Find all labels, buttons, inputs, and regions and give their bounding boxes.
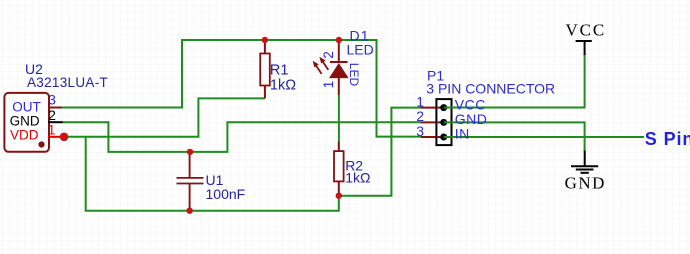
svg-text:3: 3 — [416, 123, 424, 139]
P1 pin 1 pad — [440, 104, 447, 111]
U2 corner marker dot — [38, 141, 44, 147]
junction at capacitor top — [187, 149, 193, 155]
LED emission arrow 1 — [316, 66, 321, 74]
svg-text:3 PIN CONNECTOR: 3 PIN CONNECTOR — [426, 80, 555, 96]
svg-text:1: 1 — [48, 122, 56, 138]
ground symbol stem — [584, 151, 586, 167]
U2 pin 3 stub — [48, 107, 62, 109]
svg-text:2: 2 — [48, 107, 56, 123]
resistor R2 — [338, 142, 340, 196]
LED emission arrow 2 — [323, 62, 328, 70]
svg-text:1kΩ: 1kΩ — [270, 78, 296, 94]
wire VDD branch down to bottom rail across to R2 bottom — [86, 137, 339, 211]
LED D1 anode lead — [338, 78, 340, 95]
svg-text:OUT: OUT — [12, 99, 41, 114]
wire GND net: U2 pin 2 right, down, along capacitor-top rail, up, to P1 pin 2 — [62, 122, 421, 152]
P1 pin 3 pad — [440, 134, 447, 141]
svg-text:GND: GND — [10, 113, 40, 128]
svg-text:A3213LUA-T: A3213LUA-T — [27, 75, 108, 90]
wire P1 pin 2 right to ground symbol — [444, 122, 585, 151]
junction at R2 bottom — [336, 193, 342, 199]
svg-text:1: 1 — [321, 81, 336, 89]
svg-text:1kΩ: 1kΩ — [345, 169, 370, 185]
ground symbol bar 2 — [576, 169, 594, 171]
capacitor U1 — [189, 152, 191, 211]
svg-text:VDD: VDD — [10, 127, 39, 142]
svg-text:2: 2 — [416, 108, 424, 124]
wire P1 pin 3 right to S Pin label — [444, 136, 644, 138]
P1 pin 2 pad — [440, 119, 447, 126]
ground symbol bar 3 — [581, 172, 589, 174]
wire R2 bottom right then up to P1 pin 1 — [339, 108, 422, 196]
wire P1 pin 1 right to VCC symbol — [444, 54, 585, 108]
svg-text:VCC: VCC — [565, 21, 606, 40]
junction at LED top — [336, 37, 342, 43]
LED D1 cathode lead — [338, 40, 340, 61]
junction at U2 pin 1 — [60, 133, 69, 142]
resistor R1 — [264, 40, 266, 98]
LED D1 triangle — [329, 63, 349, 78]
svg-text:3: 3 — [48, 92, 56, 108]
svg-text:GND: GND — [455, 111, 488, 127]
wire LED anode down to R2 top — [338, 94, 340, 142]
svg-text:100nF: 100nF — [206, 186, 246, 202]
svg-text:R1: R1 — [270, 63, 289, 79]
svg-text:LED: LED — [347, 63, 361, 87]
svg-text:GND: GND — [565, 173, 606, 192]
junction at R1 top — [262, 37, 268, 43]
svg-text:IN: IN — [455, 126, 470, 142]
LED D1 cathode bar — [330, 61, 348, 63]
U2 pin 2 stub — [48, 121, 63, 123]
junction at capacitor bottom — [186, 208, 192, 214]
wire OUT net: U2 pin 3 right then up then along top then down to P1 pin 3 — [62, 40, 421, 137]
ground symbol bar 1 — [571, 165, 598, 167]
VCC power symbol bar — [576, 40, 592, 42]
connector P1 pin stubs — [421, 108, 437, 137]
svg-text:2: 2 — [321, 51, 336, 59]
hall sensor U2 body — [4, 93, 49, 152]
svg-text:VCC: VCC — [455, 96, 486, 112]
U2 pin 1 stub — [48, 136, 61, 138]
VCC power symbol stem — [584, 41, 586, 55]
connector P1 body — [436, 99, 451, 145]
P1 pin stub tips inside body — [437, 108, 441, 137]
wire VDD net: U2 pin 1 right then up to R1 bottom — [64, 98, 265, 136]
svg-text:LED: LED — [347, 41, 374, 57]
svg-text:S Pin: S Pin — [645, 129, 690, 149]
